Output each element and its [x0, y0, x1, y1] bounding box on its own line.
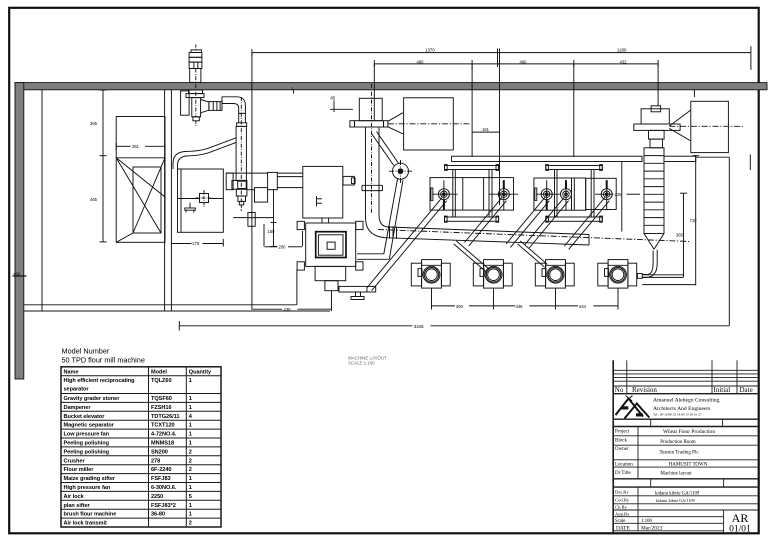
dim 300-348-344 (airlock spacing) — [432, 288, 619, 309]
air lock 3 — [535, 260, 574, 289]
svg-text:Gravity grader stoner: Gravity grader stoner — [64, 396, 121, 402]
svg-text:FSFJ83*2: FSFJ83*2 — [151, 503, 176, 509]
vertical duct below head — [362, 84, 383, 218]
brace flange to pulley — [372, 132, 399, 166]
svg-text:Dampener: Dampener — [64, 405, 92, 411]
svg-text:Architects And Engineers: Architects And Engineers — [653, 406, 710, 412]
mill group1 legs — [453, 170, 492, 218]
svg-text:kidanu kibrie GA/1109: kidanu kibrie GA/1109 — [656, 498, 695, 503]
mill group2 legs — [555, 170, 595, 218]
svg-text:432: 432 — [620, 59, 628, 64]
svg-text:Peeling polishing: Peeling polishing — [64, 441, 110, 447]
mill roll axle 5 + dim 225 — [595, 180, 640, 209]
svg-text:2: 2 — [189, 467, 192, 473]
spout pipe mill4 to header — [525, 197, 569, 248]
brush flour machine head (top right) — [634, 106, 680, 148]
svg-text:Name: Name — [64, 370, 79, 376]
wall band horizontal (gray) — [15, 83, 767, 90]
drawing caption — [348, 356, 387, 366]
mill group2 top rail — [546, 165, 603, 171]
dim 261 — [116, 143, 165, 150]
wall marker 460 label — [13, 272, 27, 277]
svg-text:1: 1 — [189, 476, 192, 482]
svg-text:1: 1 — [189, 396, 192, 402]
dim 161 — [472, 127, 499, 132]
svg-text:MNMS18: MNMS18 — [151, 441, 174, 447]
svg-text:Block: Block — [615, 439, 627, 444]
mill group1 top rail — [445, 165, 499, 171]
spout pipe mill3 to header — [506, 197, 549, 247]
suction funnel right — [669, 110, 691, 141]
svg-text:FZSH16: FZSH16 — [151, 405, 172, 411]
bench stand — [339, 286, 376, 299]
long mounting rail — [452, 156, 643, 161]
low pressure fan head (center top) — [350, 98, 388, 127]
mill unit box right — [586, 178, 617, 209]
svg-text:Tel : 09 16 80 32 18 09 13: Tel : 09 16 80 32 18 09 13 18 01 27 — [653, 413, 702, 417]
svg-text:Flour miller: Flour miller — [64, 467, 95, 473]
curved pipe elevator2 to box A — [173, 138, 236, 169]
spout pipe mill5 to header — [564, 197, 609, 249]
dim 365 right — [676, 193, 687, 277]
wall band vertical left (gray) — [15, 83, 24, 379]
svg-text:365: 365 — [676, 233, 684, 238]
separator hopper TQLZ60 — [116, 117, 165, 243]
svg-text:High pressure fan: High pressure fan — [64, 485, 111, 491]
parts table heading — [62, 347, 145, 365]
elevator2 base line — [233, 217, 274, 219]
title block text — [615, 386, 753, 535]
mill group1 bottom rail — [445, 216, 499, 222]
dim 85 — [330, 96, 353, 113]
svg-text:TCXT120: TCXT120 — [151, 423, 175, 429]
filter box right — [691, 101, 729, 152]
svg-text:SN200: SN200 — [151, 449, 168, 455]
svg-text:High efficient reciprocating: High efficient reciprocating — [64, 378, 136, 384]
svg-text:6-30NO.6.: 6-30NO.6. — [151, 485, 177, 491]
room left wall line — [41, 90, 43, 311]
pipe elbow from elevator1 to elevator2 — [201, 97, 247, 127]
svg-text:01/01: 01/01 — [729, 525, 751, 535]
duct elbow to header pipe — [366, 215, 389, 238]
svg-text:200: 200 — [279, 245, 287, 250]
dim 200 — [264, 224, 303, 250]
svg-text:225: 225 — [615, 192, 623, 197]
dim 1370 / 1180 (top line) — [252, 46, 751, 70]
svg-text:Dr Title: Dr Title — [615, 471, 631, 476]
svg-text:Tesmin Trading Plc: Tesmin Trading Plc — [659, 451, 699, 456]
air lock 1 — [411, 260, 450, 289]
filter box (center, solid) — [404, 98, 454, 150]
svg-text:490: 490 — [520, 59, 528, 64]
svg-text:DATE: DATE — [616, 525, 630, 531]
riser from sifter to floor — [296, 270, 298, 305]
svg-text:Revision: Revision — [632, 386, 657, 394]
svg-text:App.By: App.By — [615, 512, 630, 517]
dim 365 left — [90, 90, 107, 156]
air lock 4 — [598, 260, 637, 289]
dim 275 — [171, 239, 223, 247]
svg-text:300: 300 — [456, 304, 464, 309]
bucket elevator 1 (top, crossing wall) — [186, 45, 204, 127]
title block logo — [616, 396, 650, 419]
dim 465 left — [90, 156, 107, 242]
svg-text:465: 465 — [90, 197, 98, 202]
svg-text:365: 365 — [90, 121, 98, 126]
svg-text:Mar/2023: Mar/2023 — [641, 525, 663, 531]
svg-text:Date: Date — [740, 386, 753, 394]
mill roll axle 4 — [561, 180, 572, 210]
svg-text:Cod.By: Cod.By — [615, 498, 630, 503]
svg-text:2: 2 — [189, 458, 192, 464]
svg-text:275: 275 — [192, 241, 200, 246]
mill roll axle 1 — [432, 180, 457, 210]
svg-text:No: No — [615, 386, 624, 394]
pipe column to airlock4 — [637, 250, 657, 278]
svg-text:Low pressure fan: Low pressure fan — [64, 432, 110, 438]
svg-text:kidanu kibrie GA/1109: kidanu kibrie GA/1109 — [655, 491, 700, 496]
extension line at 621.8 — [621, 162, 623, 232]
svg-text:Air lock: Air lock — [64, 494, 85, 500]
svg-text:Maize grading sifter: Maize grading sifter — [64, 476, 116, 482]
svg-text:Project: Project — [615, 430, 630, 435]
extension lines from top dims — [373, 63, 375, 120]
svg-text:3345: 3345 — [414, 324, 424, 329]
riser sifter-center to 438 dim — [331, 291, 333, 311]
svg-text:Quantity: Quantity — [189, 370, 212, 376]
svg-text:Wheat Flour Production: Wheat Flour Production — [663, 429, 715, 435]
svg-text:150: 150 — [268, 229, 276, 234]
title block — [613, 360, 757, 533]
svg-text:710: 710 — [690, 218, 698, 223]
svg-text:Initial: Initial — [714, 386, 731, 394]
svg-text:278: 278 — [151, 458, 160, 464]
svg-text:FSFJ83: FSFJ83 — [151, 476, 171, 482]
svg-text:438: 438 — [284, 307, 292, 312]
svg-text:1: 1 — [189, 512, 192, 518]
svg-text:1: 1 — [189, 485, 192, 491]
svg-text:Des.By: Des.By — [615, 490, 629, 495]
svg-text:36-80: 36-80 — [151, 512, 165, 518]
svg-text:480: 480 — [417, 59, 425, 64]
hanging airlock box — [248, 213, 255, 227]
svg-text:1: 1 — [189, 378, 192, 384]
svg-text:5: 5 — [189, 494, 192, 500]
svg-text:brush flour machine: brush flour machine — [64, 512, 117, 518]
svg-text:344: 344 — [579, 304, 587, 309]
extension 1370 left — [251, 53, 253, 309]
svg-text:261: 261 — [132, 144, 140, 149]
svg-text:TQLZ60: TQLZ60 — [151, 378, 172, 384]
svg-text:1370: 1370 — [425, 48, 435, 53]
dim 150 — [268, 189, 277, 246]
svg-text:161: 161 — [482, 127, 490, 132]
svg-text:4-72NO.4.: 4-72NO.4. — [151, 432, 177, 438]
crusher box 278 — [303, 166, 355, 223]
svg-text:50 TPD flour mill machine: 50 TPD flour mill machine — [62, 356, 145, 365]
pulley circle — [389, 160, 412, 183]
horizontal duct to sifter — [357, 254, 389, 259]
header pipe (slanted band) — [378, 226, 690, 245]
svg-text:6F-2240: 6F-2240 — [151, 467, 172, 473]
svg-text:Ch.By: Ch.By — [615, 505, 628, 510]
partition wall line b — [170, 90, 172, 311]
svg-text:separator: separator — [64, 387, 90, 393]
svg-text:460: 460 — [13, 272, 21, 277]
svg-text:TQSF60: TQSF60 — [151, 396, 172, 402]
svg-text:1: 1 — [189, 423, 192, 429]
flour miller box 2 — [534, 178, 586, 210]
svg-text:Production Room: Production Room — [660, 440, 696, 445]
column hopper outlet — [644, 234, 664, 250]
svg-text:Amanuel Alebegn Consulting: Amanuel Alebegn Consulting — [653, 398, 720, 404]
svg-text:Air lock transmit: Air lock transmit — [64, 521, 107, 527]
mill roll axle 3 — [536, 180, 560, 210]
svg-text:Model: Model — [151, 370, 167, 376]
svg-text:348: 348 — [516, 304, 524, 309]
svg-text:1: 1 — [189, 405, 192, 411]
spout pipe mill1 to bench — [367, 197, 446, 290]
svg-text:85: 85 — [331, 96, 336, 101]
svg-text:SCALE 1:100: SCALE 1:100 — [348, 360, 375, 365]
centerline right filter — [669, 125, 744, 127]
rail extension to 710 dim — [694, 155, 696, 157]
mill roll axle 2 — [489, 180, 518, 210]
T-stand below box A — [185, 203, 196, 213]
room floor line inner — [24, 304, 297, 306]
svg-text:Owner: Owner — [615, 447, 629, 452]
suction funnel to filter box — [388, 113, 403, 134]
partition wall line a — [164, 90, 166, 311]
right wall line at 730 — [728, 157, 730, 326]
dim 480 490 432 (second line) — [374, 59, 658, 70]
svg-text:1: 1 — [189, 441, 192, 447]
plan sifter FSFJ83 — [297, 221, 363, 290]
svg-text:1: 1 — [189, 503, 192, 509]
mill group2 bottom rail — [546, 216, 603, 222]
spout pipe mill2 to header — [465, 197, 507, 246]
dim 3345 — [179, 321, 729, 331]
section marker on wall — [291, 86, 294, 94]
svg-text:AR: AR — [732, 511, 749, 525]
centerline through filter box — [388, 123, 470, 125]
dampener box A FZSH16 — [178, 169, 224, 232]
svg-text:2: 2 — [189, 449, 192, 455]
svg-text:Peeling polishing: Peeling polishing — [64, 449, 110, 455]
right wall line at 750 — [749, 154, 751, 170]
svg-text:1180: 1180 — [617, 48, 627, 53]
dim 710 — [642, 156, 699, 286]
wall stub at 694 — [693, 90, 695, 97]
svg-text:2: 2 — [189, 521, 192, 527]
svg-text:Location: Location — [615, 462, 633, 467]
svg-text:HAMUSIT TOWN: HAMUSIT TOWN — [669, 463, 708, 468]
feed stub header to airlock2 — [454, 241, 490, 273]
svg-text:Bucket elevator: Bucket elevator — [64, 414, 106, 420]
drop pipe pulley to sifter duct — [384, 179, 403, 259]
high pressure fan column (segmented) — [644, 148, 664, 234]
svg-text:Magnetic separator: Magnetic separator — [64, 423, 115, 429]
bucket elevator 2 TDTG26/11 — [232, 97, 247, 211]
feeder lines right of airlock4 — [642, 275, 683, 278]
svg-text:TDTG26/11: TDTG26/11 — [151, 414, 179, 420]
svg-text:1:100: 1:100 — [641, 519, 653, 524]
feed stub header to airlock3 — [518, 241, 548, 267]
room floor line outer — [24, 310, 330, 312]
svg-text:Model Number: Model Number — [62, 347, 110, 356]
flour miller box 1 (6F-2240) — [430, 178, 514, 211]
dim 438 — [251, 307, 331, 312]
air lock 2 — [473, 260, 512, 289]
svg-text:1: 1 — [189, 432, 192, 438]
svg-text:2250: 2250 — [151, 494, 163, 500]
svg-text:Scale: Scale — [615, 519, 625, 524]
svg-text:plan sifter: plan sifter — [64, 503, 91, 509]
elevator1 left leg plate — [181, 91, 190, 115]
svg-text:Crusher: Crusher — [64, 458, 86, 464]
svg-text:Machine layout: Machine layout — [660, 471, 692, 476]
peeling polishing drive assembly — [226, 172, 303, 202]
parts table — [61, 367, 221, 527]
